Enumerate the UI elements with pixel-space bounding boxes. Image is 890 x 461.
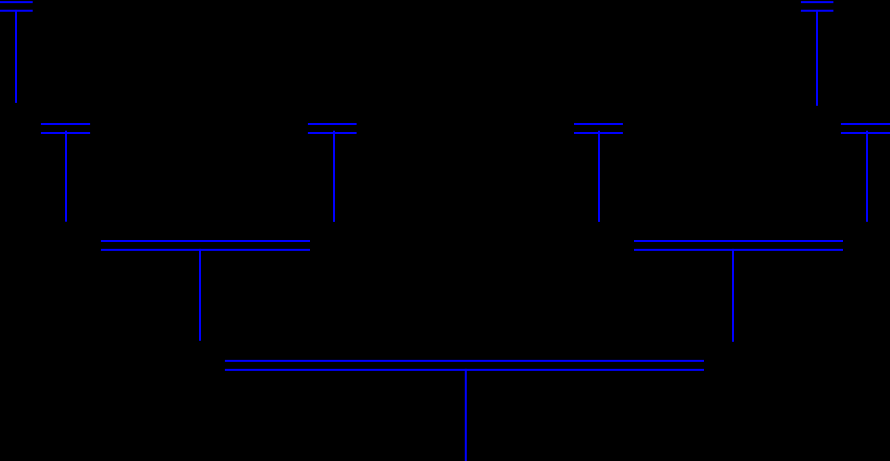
capacitor C9 bottom plate [225,369,704,371]
wire from capacitor C7 bottom plate [199,249,201,341]
capacitor C6 top plate [841,123,890,125]
capacitor C7 bottom plate [101,249,310,251]
capacitor C2 bottom plate [801,10,834,12]
wire from capacitor C3 bottom plate [65,131,67,222]
wire from capacitor C6 bottom plate [866,131,868,222]
wire from capacitor C8 bottom plate [732,249,734,342]
wire from capacitor C5 bottom plate [598,131,600,222]
capacitor C7 top plate [101,240,310,242]
capacitor C1 bottom plate [0,10,33,12]
wire from capacitor C2 bottom plate [816,10,818,106]
capacitor C8 top plate [634,240,843,242]
capacitor C4 bottom plate [308,132,357,134]
capacitor C4 top plate [308,123,357,125]
capacitor C5 top plate [574,123,623,125]
capacitor C9 top plate [225,360,704,362]
capacitor C1 top plate [0,1,33,3]
wire from capacitor C1 bottom plate [15,10,17,103]
wire from capacitor C4 bottom plate [333,131,335,222]
capacitor C6 bottom plate [841,132,890,134]
capacitor C3 top plate [41,123,90,125]
capacitor C8 bottom plate [634,249,843,251]
wire from capacitor C9 bottom plate [465,369,467,461]
capacitor C3 bottom plate [41,132,90,134]
capacitor C2 top plate [801,1,834,3]
capacitor C5 bottom plate [574,132,623,134]
